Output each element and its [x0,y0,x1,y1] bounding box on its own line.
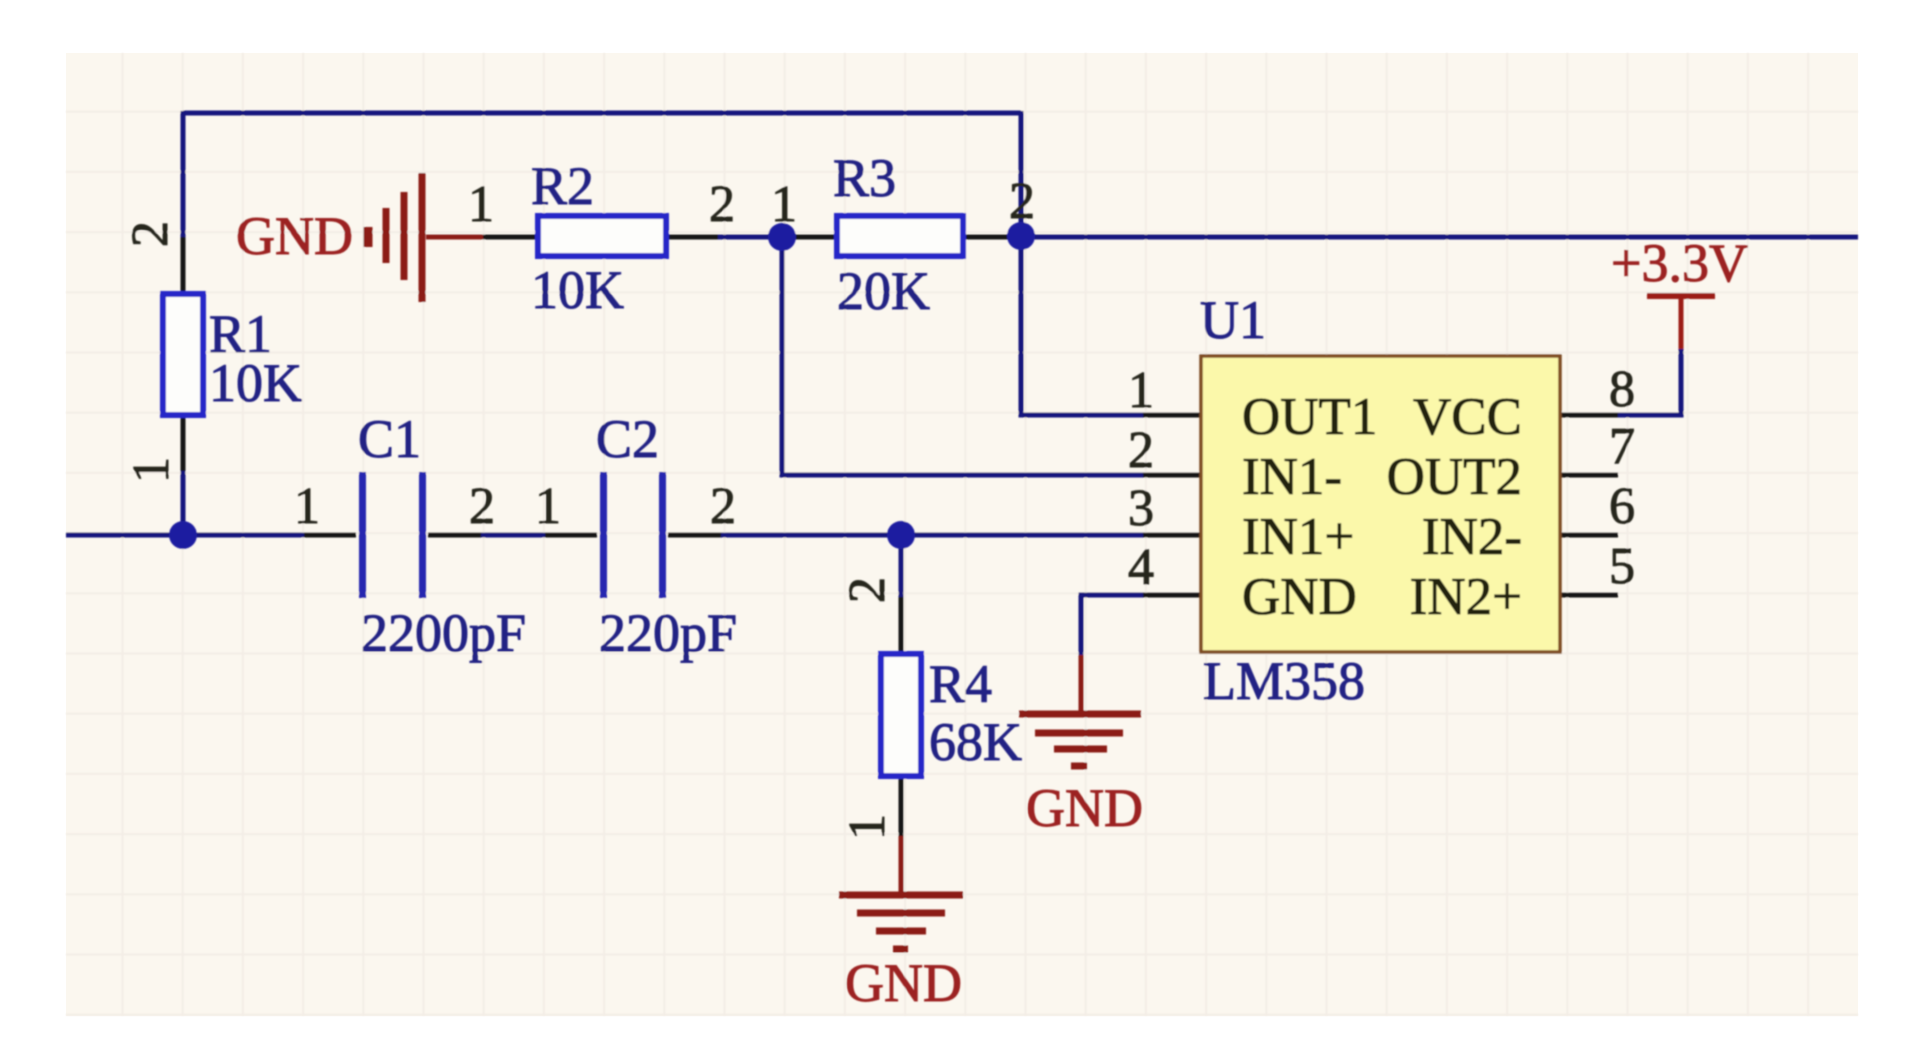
wire: top feedback wire from R1 top to junction above R3 pin 2 [183,111,1021,237]
svg-text:C2: C2 [596,409,659,469]
junction dot node between R2 and R3 [768,223,796,251]
+3.3V power symbol [1647,296,1715,349]
svg-text:R4: R4 [929,654,992,714]
IC U1 pin 6 lead [1560,533,1618,538]
svg-text:LM358: LM358 [1203,651,1365,711]
svg-text:U1: U1 [1200,290,1266,350]
svg-text:IN2-: IN2- [1422,508,1522,566]
svg-text:10K: 10K [209,353,302,413]
svg-text:2: 2 [710,478,736,535]
svg-text:R3: R3 [833,148,896,208]
svg-text:7: 7 [1609,418,1635,475]
wire: R1 bottom to main net [181,471,186,535]
svg-text:220pF: 220pF [599,603,737,663]
resistor R1 pins (black) [181,237,186,471]
svg-text:6: 6 [1609,478,1635,535]
IC U1 pin 5 lead [1560,593,1618,598]
svg-text:2200pF: 2200pF [361,603,526,663]
svg-text:5: 5 [1609,538,1635,595]
resistor R4 pins [899,597,904,836]
ground symbol at IC pin 4 [1019,655,1141,766]
svg-text:2: 2 [122,221,179,247]
IC U1 pin 2 lead [1143,473,1201,478]
svg-text:2: 2 [1009,173,1035,230]
svg-text:IN2+: IN2+ [1410,568,1522,626]
svg-text:IN1-: IN1- [1242,448,1342,506]
wire: IC pin 4 to GND symbol [1081,595,1143,655]
IC U1 pin 1 lead [1143,413,1201,418]
svg-text:1: 1 [1128,362,1154,419]
resistor R3 pins [782,235,1009,240]
ground symbol left (at R2 pin 1) [368,173,483,302]
svg-text:2: 2 [469,478,495,535]
capacitor C2 plates [600,472,607,598]
resistor R2 body [538,216,666,256]
svg-text:GND: GND [1242,568,1357,626]
svg-text:IN1+: IN1+ [1242,508,1354,566]
wire: +3.3V to IC pin 8 [1618,349,1681,415]
svg-text:10K: 10K [531,260,624,320]
ground symbol below R4 [839,836,963,949]
svg-text:20K: 20K [837,261,930,321]
svg-text:8: 8 [1609,361,1635,418]
svg-text:GND: GND [1026,778,1143,838]
resistor R1 body [163,294,203,415]
svg-text:OUT2: OUT2 [1387,448,1522,506]
svg-text:GND: GND [236,206,353,266]
capacitor C2 pins [545,533,721,538]
resistor R2 pins [483,235,718,240]
junction dot at R3 pin 2 / feedback [1007,222,1035,250]
svg-text:+3.3V: +3.3V [1611,233,1748,293]
svg-text:1: 1 [294,478,320,535]
svg-text:2: 2 [839,577,896,603]
svg-text:VCC: VCC [1413,388,1522,446]
wire: main input net at y=534 [66,533,1143,538]
svg-text:2: 2 [1128,422,1154,479]
svg-text:1: 1 [771,176,797,233]
resistor R4 body [881,654,921,776]
IC U1 pin 8 lead [1560,413,1618,418]
IC U1 body [1201,356,1560,652]
svg-text:1: 1 [839,814,896,840]
svg-text:C1: C1 [358,409,421,469]
wire: junction4 down to R4 [899,535,904,597]
svg-text:3: 3 [1128,480,1154,537]
wire: net between R2/R3 and from junction2 to sheet right edge [718,235,1858,240]
svg-text:1: 1 [123,457,180,483]
wire: junction2 down to IC pin 1 [1021,237,1143,415]
svg-text:68K: 68K [929,712,1022,772]
IC U1 pin 7 lead [1560,473,1618,478]
resistor R3 body [837,216,963,256]
capacitor C1 plates [359,472,366,598]
capacitor C1 pins [304,533,481,538]
junction dot at R1 bottom / main net [169,521,197,549]
svg-text:1: 1 [468,176,494,233]
svg-text:4: 4 [1128,539,1154,596]
IC U1 pin 3 lead [1143,533,1201,538]
junction dot at R4 top / main net [887,521,915,549]
svg-text:OUT1: OUT1 [1242,388,1377,446]
svg-text:2: 2 [709,176,735,233]
IC U1 pin 4 lead [1143,593,1201,598]
svg-text:R2: R2 [531,156,594,216]
svg-text:1: 1 [535,478,561,535]
svg-text:GND: GND [845,953,962,1013]
wire: junction1 down to IC pin 2 [782,237,1143,475]
